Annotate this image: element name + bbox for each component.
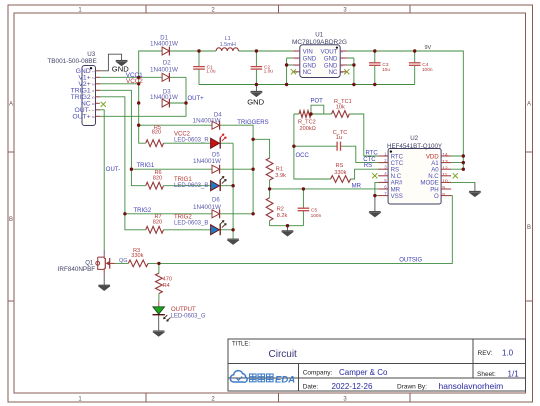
capacitor C_TC <box>336 142 338 151</box>
svg-text:REV:: REV: <box>478 350 493 357</box>
svg-text:NC: NC <box>303 69 312 76</box>
svg-text:U3: U3 <box>87 51 95 58</box>
logo EDA text <box>250 374 257 382</box>
junction QG node R3/R4/OUTSIG <box>157 262 160 265</box>
svg-text:Sheet:: Sheet: <box>477 371 496 378</box>
diode D4 <box>212 121 220 129</box>
wire OUT- U3 to Q1 drain <box>100 110 105 250</box>
svg-text:Circuit: Circuit <box>269 349 298 360</box>
resistor R6 <box>146 182 164 189</box>
svg-text:1N4001W: 1N4001W <box>193 158 221 165</box>
svg-text:1/1: 1/1 <box>508 370 520 379</box>
timer U2 pin stubs <box>378 155 388 157</box>
svg-text:7: 7 <box>92 109 96 111</box>
wire U1 right GND pins rail <box>347 58 354 85</box>
resistor R7 <box>146 226 164 233</box>
wire U3 V1+ to D2 anode <box>100 76 163 78</box>
svg-text:OUT+: OUT+ <box>188 96 205 102</box>
svg-text:MR: MR <box>352 183 362 189</box>
junction TRIGGERS rail / D5 <box>251 168 254 171</box>
wire U1 left GND pins rail <box>287 58 293 85</box>
svg-text:1u: 1u <box>336 135 342 141</box>
svg-text:1.5mH: 1.5mH <box>220 42 236 48</box>
wire C4 leads <box>414 51 416 85</box>
svg-text:Drawn By:: Drawn By: <box>397 384 427 391</box>
svg-text:O: O <box>434 193 439 200</box>
svg-text:2: 2 <box>92 77 96 79</box>
junction LED rail / blue LED2 <box>231 228 234 231</box>
transistor Q1 IRF840NPBF <box>104 256 105 273</box>
svg-text:OUTPUT: OUTPUT <box>171 307 196 313</box>
svg-text:1.0u: 1.0u <box>264 69 274 75</box>
ground Q1 source <box>98 284 110 286</box>
junction C1 top / D1 cathode <box>197 49 200 52</box>
regulator U1 body <box>300 45 340 78</box>
junction C4 top / 9V <box>413 49 416 52</box>
svg-text:VCC2: VCC2 <box>126 78 143 85</box>
ground LED cathode rail <box>227 238 239 240</box>
svg-text:5: 5 <box>340 71 344 73</box>
ground below green LED <box>153 330 165 332</box>
svg-text:10u: 10u <box>382 67 390 73</box>
svg-text:TB001-500-08BE: TB001-500-08BE <box>47 58 96 65</box>
svg-text:3.9k: 3.9k <box>275 173 286 179</box>
svg-text:LED-0603_B: LED-0603_B <box>174 183 208 189</box>
wire R3 to node, R4 leads <box>148 263 159 301</box>
diode D5 <box>212 165 220 173</box>
svg-text:QG: QG <box>119 258 128 264</box>
wire OUT+ U3 to D2/D3 cathodes <box>100 77 187 116</box>
svg-text:GND: GND <box>303 55 317 62</box>
wire Q1 source to GND <box>103 273 105 285</box>
diode D6 <box>212 210 220 218</box>
junction OCC node / C_TC <box>292 145 295 148</box>
svg-text:6: 6 <box>340 64 344 66</box>
capacitor C1 <box>193 66 205 68</box>
svg-text:1N4001W: 1N4001W <box>193 117 221 124</box>
regulator U1 pin stubs <box>293 50 300 52</box>
no-connect X on U1 right NC <box>344 69 349 74</box>
resistor R5 <box>146 140 164 147</box>
svg-text:9V: 9V <box>425 45 432 51</box>
title block column lines <box>298 364 300 392</box>
svg-text:2: 2 <box>294 57 298 59</box>
svg-text:2022-12-26: 2022-12-26 <box>332 382 373 391</box>
resistor R_TC2 <box>299 111 311 118</box>
svg-text:LED-0603_G: LED-0603_G <box>171 313 206 319</box>
LED OUTPUT green <box>153 307 165 314</box>
diode D2 <box>162 73 169 81</box>
svg-text:GND: GND <box>324 55 338 62</box>
svg-text:RS: RS <box>336 163 344 169</box>
svg-text:820: 820 <box>152 129 161 135</box>
svg-text:8: 8 <box>442 192 445 198</box>
wire RS to U2 RS pin <box>351 169 379 179</box>
junction MR node / C5 top <box>302 187 305 190</box>
svg-text:LED-0603_R: LED-0603_R <box>174 137 209 143</box>
svg-text:8: 8 <box>340 50 344 52</box>
ground below C2 <box>251 91 263 93</box>
wire D4 anode and TRIGGERS cathode rail <box>139 125 253 214</box>
wire D5 cathode to rail <box>220 168 253 170</box>
svg-text:330k: 330k <box>131 253 143 259</box>
wire VCC vertical rail (D1..D4 anodes, R5) <box>139 51 162 143</box>
wire R6 to blue LED TRIG1 <box>164 185 234 187</box>
ground U2 VSS <box>369 211 381 213</box>
junction 9V rail / U2 A1 <box>462 161 465 164</box>
border ticks top <box>145 5 147 13</box>
wire R_TC1 to U2 RTC <box>349 114 378 156</box>
wire R7 to blue LED TRIG2 <box>164 229 234 231</box>
svg-text:Camper & Co: Camper & Co <box>339 368 388 377</box>
wire U3 V2+ to VCC rail <box>100 83 139 85</box>
wire C1 leads <box>198 51 200 85</box>
svg-text:11: 11 <box>442 172 447 178</box>
svg-text:GND: GND <box>247 98 264 107</box>
svg-text:470: 470 <box>163 276 172 282</box>
svg-text:OCC: OCC <box>296 153 310 159</box>
svg-text:1: 1 <box>294 50 298 52</box>
ground near U3 <box>116 60 128 62</box>
junction U1 right GND to rail <box>352 83 355 86</box>
junction TRIGGERS rail / D6 <box>251 212 254 215</box>
svg-text:R1: R1 <box>276 166 283 172</box>
svg-text:4: 4 <box>92 90 96 92</box>
svg-text:330k: 330k <box>334 170 346 176</box>
LED TRIG2 blue <box>211 225 220 235</box>
svg-text:TRIG2: TRIG2 <box>134 208 152 214</box>
LED VCC2 red <box>211 138 220 148</box>
junction VCC rail / D3 anode <box>137 101 140 104</box>
svg-text:MC78L09ABDR2G: MC78L09ABDR2G <box>292 39 347 46</box>
no-connect X on U1 left NC <box>291 69 296 74</box>
wire C2 leads <box>255 51 257 85</box>
svg-text:TITLE:: TITLE: <box>232 342 250 348</box>
svg-text:OUTSIG: OUTSIG <box>399 258 422 264</box>
junction TRIG2 / R7 <box>123 212 126 215</box>
svg-text:200kΩ: 200kΩ <box>300 126 316 132</box>
junction POT node <box>309 112 312 115</box>
junction GND rail / C2 bottom <box>255 83 258 86</box>
resistor R4 <box>156 273 163 293</box>
wire MR node to U2 MR pin <box>270 188 379 190</box>
junction MR node / R1-R2 <box>268 187 271 190</box>
svg-text:12: 12 <box>442 165 448 171</box>
wire U3 GND pin to GND symbol <box>100 54 122 71</box>
border ticks bottom <box>145 393 147 402</box>
svg-text:1N4001W: 1N4001W <box>150 40 178 47</box>
wire C_TC right plate to U2 CTC <box>341 146 379 162</box>
inductor L1 <box>216 48 238 51</box>
svg-text:10: 10 <box>442 179 448 185</box>
svg-text:RTC: RTC <box>366 151 379 157</box>
svg-text:C5: C5 <box>311 207 317 213</box>
svg-text:R_TC2: R_TC2 <box>298 120 316 126</box>
svg-text:B: B <box>9 217 13 223</box>
svg-text:U1: U1 <box>315 31 323 38</box>
wire R1 bottom to R2 top (MR node) <box>269 180 271 198</box>
svg-text:HEF4541BT-Q100Y: HEF4541BT-Q100Y <box>387 143 442 150</box>
svg-text:1N4001W: 1N4001W <box>150 67 178 74</box>
svg-text:VSS: VSS <box>391 193 403 200</box>
svg-text:1.0: 1.0 <box>502 349 514 358</box>
wire R2/C6 bottom to GND tee <box>270 221 304 226</box>
junction VCC rail / V2+ <box>137 82 140 85</box>
svg-text:R2: R2 <box>277 207 284 213</box>
connector U3 TB001-500-08BE body <box>82 66 96 126</box>
resistor R2 <box>266 198 273 221</box>
svg-text:14: 14 <box>442 152 448 158</box>
LED TRIG1 blue <box>211 181 220 191</box>
wire U2 O output to OUTSIG and R3 node <box>159 196 452 264</box>
wire C6 leads <box>302 189 304 226</box>
svg-text:6: 6 <box>92 103 96 105</box>
svg-text:1: 1 <box>92 70 96 72</box>
timer U2 HEF4541BT body <box>388 149 441 205</box>
resistor R3 <box>128 260 148 267</box>
wire U3 TRIG2 to D6 anode and R7 <box>100 97 213 230</box>
wire R5 to red LED <box>164 142 234 144</box>
svg-text:A: A <box>527 102 531 108</box>
no-connect X on U2 pin4 <box>372 173 377 178</box>
junction 9V rail / U2 VDD <box>462 154 465 157</box>
no-connect X on U2 pin11 <box>453 173 458 178</box>
svg-text:POT: POT <box>311 98 324 104</box>
border ticks left <box>8 151 14 153</box>
wire Q1 gate QG to R3 <box>115 262 128 264</box>
wire bottom GND rail C1-C2-U1-C3-C4 <box>199 84 415 86</box>
svg-text:VIN: VIN <box>303 48 313 55</box>
svg-text:13: 13 <box>442 159 448 165</box>
junction VCC rail / D4 anode <box>137 124 140 127</box>
svg-text:8.2k: 8.2k <box>277 213 288 219</box>
ground R2/C5 node <box>282 230 294 232</box>
svg-text:D6: D6 <box>212 198 220 204</box>
svg-text:8: 8 <box>92 116 96 118</box>
svg-text:A: A <box>9 102 13 108</box>
junction U1 left GND to rail <box>285 83 288 86</box>
resistor RS <box>331 176 351 183</box>
border ticks right <box>526 151 533 153</box>
svg-text:OUT-: OUT- <box>106 167 120 173</box>
logo EDA cloud <box>230 371 247 383</box>
junction LED rail / blue LED1 <box>231 184 234 187</box>
diode D1 <box>162 47 169 55</box>
capacitor C2 <box>251 66 263 68</box>
junction C3 top / 9V <box>373 49 376 52</box>
svg-text:OUT+: OUT+ <box>72 114 90 121</box>
svg-text:5: 5 <box>92 96 96 98</box>
wire U3 TRIG1 to D5 anode and R6 <box>100 90 213 185</box>
junction TRIG1 / R6 <box>130 168 133 171</box>
svg-text:hansolavnorheim: hansolavnorheim <box>439 381 504 391</box>
connector U3 pin stubs <box>96 70 100 72</box>
svg-text:Date:: Date: <box>303 384 319 391</box>
junction GND rail / C3 bottom <box>373 83 376 86</box>
resistor R1 <box>266 158 273 180</box>
svg-text:U2: U2 <box>410 135 418 142</box>
svg-text:9: 9 <box>442 185 445 191</box>
svg-text:LED-0603_B: LED-0603_B <box>174 220 208 226</box>
wire U2 MODE to GND <box>451 181 475 183</box>
svg-text:R4: R4 <box>163 283 170 289</box>
wire POT stub over R_TC junction <box>311 105 332 114</box>
svg-text:TRIG1: TRIG1 <box>137 163 155 169</box>
wire green LED cathode to GND <box>158 315 160 331</box>
no-connect X on U3 NC pin <box>101 102 106 107</box>
svg-text:1N4001W: 1N4001W <box>150 94 178 101</box>
svg-text:B: B <box>527 225 531 231</box>
wire OCC node R_TC2/C_TC/RS <box>294 114 337 179</box>
junction U1 left GND pins <box>285 63 288 66</box>
svg-text:820: 820 <box>153 175 162 181</box>
junction U2 VSS / AR <box>373 194 376 197</box>
svg-text:3: 3 <box>294 64 298 66</box>
junction U1 right GND pins <box>352 63 355 66</box>
junction 9V rail / U2 A0 <box>462 168 465 171</box>
resistor R_TC1 <box>332 111 350 118</box>
svg-text:10k: 10k <box>336 105 345 111</box>
svg-text:TRIGGERS: TRIGGERS <box>237 120 268 126</box>
svg-text:Company:: Company: <box>303 370 333 377</box>
svg-text:VOUT: VOUT <box>320 48 337 55</box>
diode D3 <box>162 99 169 107</box>
title block outline <box>228 339 526 391</box>
wire top rail D1-L1-C1-C2 to U1 VIN <box>169 50 292 52</box>
junction TRIGGERS rail / R1 <box>251 138 254 141</box>
svg-text:1N4001W: 1N4001W <box>193 204 221 211</box>
svg-text:3: 3 <box>92 83 96 85</box>
capacitor C3 <box>369 62 381 64</box>
wire 9V rail U1 VOUT to U2 VDD/A1/A0 <box>347 51 463 169</box>
junction R2/C5 bottom GND tee <box>286 224 289 227</box>
junction OUT+ rail / D3 cathode <box>184 101 187 104</box>
wire TRIGGERS rail to R1 top <box>253 139 270 158</box>
capacitor C5 <box>298 207 310 209</box>
junction C2 top / L1 out <box>255 49 258 52</box>
wire LED cathode rail to GND <box>232 143 234 239</box>
svg-text:RS: RS <box>364 163 372 169</box>
svg-text:IRF840NPBF: IRF840NPBF <box>58 266 96 273</box>
svg-text:100n: 100n <box>422 67 433 73</box>
svg-text:820: 820 <box>153 220 162 226</box>
ground U2 MODE <box>469 191 481 193</box>
wire D6 cathode to rail <box>220 213 253 215</box>
wire C3 leads <box>374 51 376 85</box>
svg-text:EDA: EDA <box>275 375 295 386</box>
wire U2 AR and VSS to GND <box>375 182 378 195</box>
capacitor C4 <box>409 62 421 64</box>
svg-text:NC: NC <box>329 69 338 76</box>
svg-text:1.0u: 1.0u <box>206 69 216 75</box>
svg-text:7: 7 <box>340 57 344 59</box>
title block row lines <box>228 363 526 365</box>
svg-text:100n: 100n <box>311 213 322 219</box>
junction VCC rail / V1+ <box>137 76 140 79</box>
